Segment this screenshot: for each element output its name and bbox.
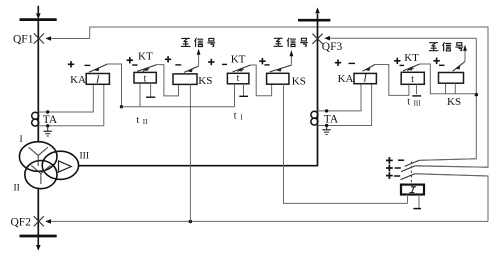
svg-text:KS: KS [292,75,306,87]
svg-text:II: II [14,183,20,193]
svg-text:KT: KT [231,53,246,65]
svg-text:t: t [411,74,414,85]
svg-text:KS: KS [198,75,212,87]
svg-text:KT: KT [404,52,419,64]
svg-text:II: II [143,118,148,126]
svg-text:III: III [414,99,422,107]
svg-text:QF2: QF2 [11,217,32,229]
svg-text:t: t [234,110,237,121]
svg-text:KS: KS [447,96,461,108]
svg-text:t: t [137,115,140,126]
svg-text:I: I [362,74,367,85]
svg-text:t: t [144,73,147,84]
svg-text:KA: KA [70,74,86,86]
svg-text:t: t [237,73,240,84]
svg-text:I: I [20,135,23,145]
svg-text:KT: KT [138,51,153,63]
svg-text:QF1: QF1 [13,34,34,46]
svg-text:TA: TA [324,114,339,126]
svg-text:III: III [80,151,90,161]
svg-text:KA: KA [338,73,354,85]
svg-text:t: t [407,96,410,107]
svg-text:QF3: QF3 [322,41,343,53]
svg-text:TA: TA [43,114,58,126]
svg-text:I: I [95,74,100,85]
